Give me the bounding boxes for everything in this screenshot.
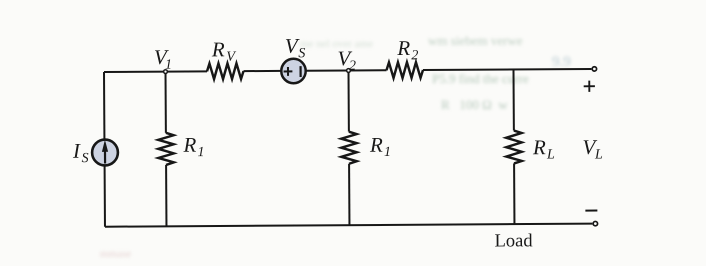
label V2: [337, 46, 356, 74]
wire: V_S to V_2: [305, 69, 348, 71]
svg-text:R: R: [532, 135, 546, 159]
IS arrow: [104, 146, 106, 163]
label RV: [211, 37, 237, 65]
faint bleed-through row 2: [432, 71, 529, 87]
terminal top-right: [592, 67, 596, 71]
resistor R_V: [207, 63, 244, 79]
label IS: [72, 139, 89, 167]
svg-text:1: 1: [384, 145, 391, 160]
svg-text:R: R: [182, 133, 196, 157]
label R2: [396, 36, 418, 64]
minus polarity mark: [585, 210, 597, 212]
faint bleed-through row 3: [441, 97, 508, 113]
label V1: [154, 45, 172, 73]
svg-text:2: 2: [349, 59, 356, 74]
svg-text:2: 2: [411, 48, 418, 63]
resistor R1 (left): [158, 133, 174, 165]
label R1 middle: [369, 133, 391, 161]
resistor R_2: [386, 62, 423, 78]
wire: V_1 rail lower: [165, 165, 167, 226]
wire: bottom rail: [105, 224, 592, 227]
label VS: [285, 34, 306, 62]
svg-text:R: R: [369, 133, 383, 157]
node V2: [347, 69, 351, 73]
VS plus sign: [284, 67, 293, 76]
svg-text:S: S: [298, 46, 305, 61]
current source IS: [92, 140, 118, 166]
wire: V_2 rail lower: [348, 164, 350, 225]
resistor RL: [506, 130, 522, 163]
svg-text:I: I: [72, 139, 81, 163]
label RL: [532, 135, 555, 163]
wire: R_V to V_S: [243, 70, 281, 72]
wire: R_L rail lower: [513, 163, 515, 224]
label VL: [582, 135, 603, 163]
faint bleed-through text row 1: [428, 33, 523, 49]
svg-text:R: R: [396, 36, 410, 60]
faint bleed-through V_S area: [300, 38, 373, 50]
wire: V_2 to R_2: [348, 69, 386, 71]
svg-text:S: S: [81, 151, 88, 166]
label Load: [495, 231, 534, 251]
node V1: [164, 70, 168, 74]
svg-text:1: 1: [197, 145, 204, 160]
wire: R_L rail upper: [512, 69, 514, 130]
svg-text:L: L: [594, 147, 603, 162]
wire: V_2 rail upper: [347, 70, 349, 131]
faint bleed-through number 9.9: [552, 54, 571, 71]
svg-text:V: V: [226, 50, 236, 65]
resistor R1 (middle): [341, 132, 357, 164]
wire: left rail: [103, 72, 106, 227]
svg-text:1: 1: [165, 58, 172, 73]
label R1 left: [182, 133, 204, 161]
voltage source VS: [281, 59, 306, 84]
svg-text:R: R: [211, 37, 225, 61]
wire top: left corner to R_V: [104, 70, 207, 73]
faint pink smudge bottom left: [100, 248, 131, 260]
wire: R_2 to top-right terminal: [423, 69, 591, 70]
svg-text:L: L: [546, 147, 555, 162]
wire: V_1 rail upper: [164, 72, 166, 133]
VS bar: [299, 66, 301, 77]
svg-text:Load: Load: [495, 231, 534, 251]
plus polarity mark: [584, 81, 595, 92]
terminal bottom-right: [593, 221, 597, 225]
